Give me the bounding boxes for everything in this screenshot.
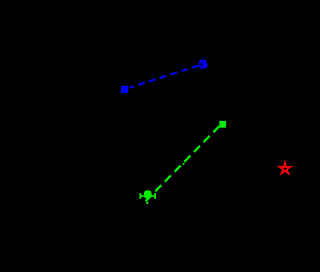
red open star marker (279, 163, 290, 173)
blue circle marker with dark 4-shape center (199, 59, 208, 69)
green dashed line segment (146, 123, 223, 201)
green square marker (219, 121, 226, 128)
blue dashed line segment (128, 64, 203, 88)
blue square marker (121, 86, 128, 93)
mask under blue square (120, 84, 130, 94)
stray green dot on line (183, 163, 185, 165)
green errorbar (140, 193, 156, 199)
green round marker (144, 190, 152, 204)
